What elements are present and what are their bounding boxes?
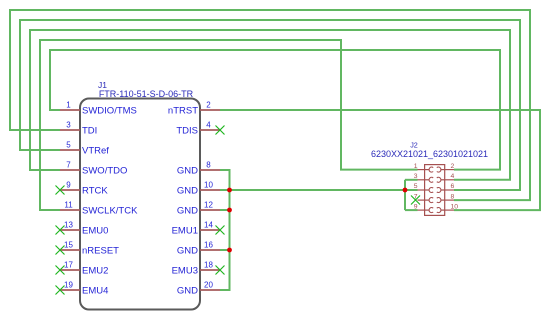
J1 pin 4 TDIS [176,121,220,137]
svg-text:3: 3 [414,173,418,180]
svg-text:GND: GND [177,165,198,176]
J2 pin 1 [414,163,433,172]
junction at 229.5,250 [227,248,232,253]
svg-text:4: 4 [206,121,211,130]
no-connect X J1 pin18 [216,266,225,275]
svg-text:4: 4 [451,173,455,180]
J1 pin 19 EMU4 [60,281,108,297]
svg-text:EMU4: EMU4 [82,285,108,296]
svg-text:5: 5 [414,183,418,190]
wire J1 pin2 nTRST to J2 pin10 [220,110,540,210]
wire GND stub J1 pin12 [220,209,230,211]
wire GND stub J1 pin16 [220,249,230,251]
svg-text:3: 3 [66,121,71,130]
J2 pin 5 [414,183,433,192]
svg-text:8: 8 [451,193,455,200]
svg-text:11: 11 [64,201,73,210]
svg-text:9: 9 [414,203,418,210]
svg-text:EMU3: EMU3 [172,265,198,276]
wire GND vertical at J2 [404,180,406,210]
J1 pin 18 EMU3 [172,261,220,277]
svg-text:7: 7 [414,193,418,200]
wire J1 pin7 SWO/TDO to J2 pin4 [30,30,510,180]
svg-text:2: 2 [451,163,455,170]
junction at 229.5,190 [227,188,232,193]
svg-text:9: 9 [66,181,71,190]
svg-text:SWO/TDO: SWO/TDO [82,165,127,176]
svg-text:FTR-110-51-S-D-06-TR: FTR-110-51-S-D-06-TR [99,89,194,99]
J1 pin 20 GND [177,281,220,297]
J2 pin 10 [437,203,458,212]
J1 pin 11 SWCLK/TCK [60,201,138,217]
junction at 405,190 [403,188,408,193]
svg-text:10: 10 [451,203,459,210]
svg-text:20: 20 [204,281,213,290]
svg-text:SWCLK/TCK: SWCLK/TCK [82,205,138,216]
svg-text:19: 19 [64,281,73,290]
J1 pin 13 EMU0 [60,221,108,237]
J2 pin 3 [414,173,433,182]
J2 pin 6 [437,183,455,192]
J1 pin 15 nRESET [60,241,119,257]
wire GND stub J1 pin10 [220,189,230,191]
svg-text:nRESET: nRESET [82,245,119,256]
svg-text:EMU1: EMU1 [172,225,198,236]
svg-text:16: 16 [204,241,213,250]
no-connect X J1 pin4 [216,126,225,135]
wire J1 pin1 SWDIO/TMS to J2 pin2 [50,50,500,170]
J2 pin 7 [414,193,433,202]
wire GND bus J1 pins 8-20 [220,170,230,290]
J1 pin 14 EMU1 [172,221,220,237]
J2 pin 4 [437,173,455,182]
svg-text:7: 7 [66,161,71,170]
J1 pin 5 VTRef [60,141,109,157]
wire GND stub J2 pin9 [405,209,418,211]
svg-text:18: 18 [204,261,213,270]
svg-text:RTCK: RTCK [82,185,108,196]
J1 pin 2 nTRST [168,101,220,117]
svg-text:15: 15 [64,241,73,250]
J1 pin 17 EMU2 [60,261,108,277]
no-connect X J1 pin14 [216,226,225,235]
svg-text:SWDIO/TMS: SWDIO/TMS [82,105,137,116]
no-connect X J2 pin7 [411,196,420,205]
wire GND stub J2 pin3 [405,179,418,181]
svg-text:TDI: TDI [82,125,97,136]
J1 pin 3 TDI [60,121,97,137]
svg-text:GND: GND [177,185,198,196]
wire J1 pin11 SWCLK/TCK to J2 pin1 [40,40,418,210]
svg-text:VTRef: VTRef [82,145,109,156]
J1 pin 12 GND [177,201,220,217]
J1 pin 8 GND [177,161,220,177]
junction at 229.5,210 [227,208,232,213]
no-connect X J1 pin13 [56,226,65,235]
J1 pin 9 RTCK [60,181,108,197]
J1 pin 1 SWDIO/TMS [60,101,137,117]
svg-text:5: 5 [66,141,71,150]
no-connect X J1 pin9 [56,186,65,195]
connector J1 body [80,99,200,310]
svg-text:GND: GND [177,285,198,296]
J1 pin 16 GND [177,241,220,257]
svg-text:EMU2: EMU2 [82,265,108,276]
J1 pin 10 GND [177,181,220,197]
J2 pin 2 [437,163,455,172]
svg-text:2: 2 [206,101,211,110]
no-connect X J1 pin17 [56,266,65,275]
J1 pin 7 SWO/TDO [60,161,127,177]
svg-text:6230XX21021_62301021021: 6230XX21021_62301021021 [371,149,488,159]
connector J2 body [425,165,445,216]
svg-text:10: 10 [204,181,213,190]
no-connect X J1 pin15 [56,246,65,255]
svg-text:EMU0: EMU0 [82,225,108,236]
svg-text:17: 17 [64,261,73,270]
svg-text:1: 1 [414,163,418,170]
svg-text:TDIS: TDIS [176,125,198,136]
wire J1 pin5 VTRef to J2 pin6 [20,20,520,190]
svg-text:8: 8 [206,161,211,170]
svg-text:GND: GND [177,205,198,216]
svg-text:12: 12 [204,201,213,210]
svg-text:nTRST: nTRST [168,105,198,116]
svg-text:6: 6 [451,183,455,190]
wire J1 pin3 TDI to J2 pin8 [10,10,530,200]
J2 pin 9 [414,203,433,212]
wire GND stub J2 pin5 [405,189,418,191]
svg-text:GND: GND [177,245,198,256]
svg-text:14: 14 [204,221,213,230]
no-connect X J1 pin19 [56,286,65,295]
svg-text:13: 13 [64,221,73,230]
svg-text:1: 1 [66,101,71,110]
J2 pin 8 [437,193,455,202]
wire GND horizontal to J2 [230,189,406,191]
